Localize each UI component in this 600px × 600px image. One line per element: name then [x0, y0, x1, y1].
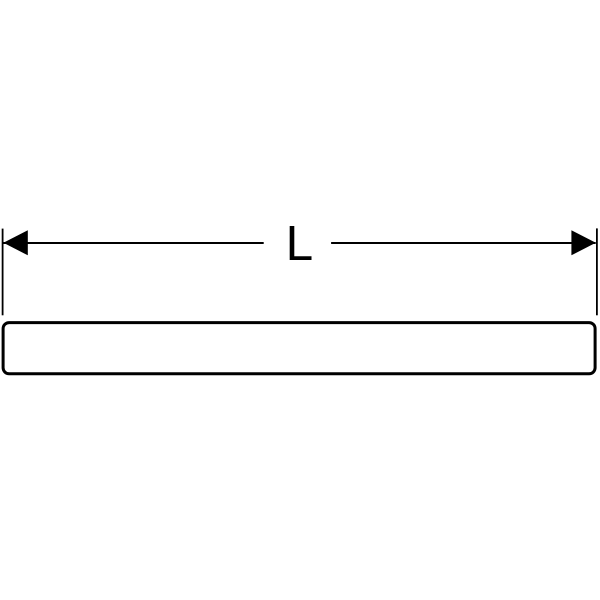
svg-text:L: L: [286, 216, 314, 271]
extension line left: [2, 229, 4, 316]
flat bar profile: [3, 323, 595, 374]
arrowhead left: [3, 230, 27, 255]
arrowhead right: [571, 230, 595, 255]
dimension line right segment: [331, 242, 596, 244]
extension line right: [596, 228, 598, 315]
dimension line left segment: [3, 242, 263, 244]
